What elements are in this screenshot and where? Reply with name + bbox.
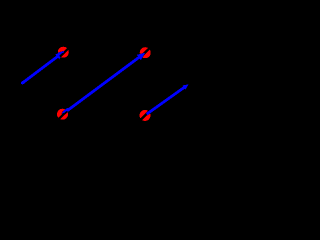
segment 1 head stub over slash — [58, 52, 64, 54]
open point P4 slash — [141, 112, 149, 120]
open point P1 slash — [60, 49, 68, 57]
open point P2 disk — [140, 47, 151, 58]
segment 1 head arrow — [55, 52, 64, 60]
open point P4 disk — [139, 110, 150, 121]
open point P3 slash — [59, 111, 67, 119]
segment 2 start stub over slash — [63, 109, 68, 113]
segment 1 tail arrow — [21, 81, 25, 85]
segment 3 head arrow — [182, 84, 188, 90]
segment 2 head arrow — [137, 53, 146, 61]
open point P2 slash — [141, 49, 149, 57]
open point P3 disk — [57, 109, 68, 120]
segment 2 shaft — [63, 56, 142, 114]
segment 3 shaft — [147, 86, 186, 114]
open point P1 disk — [58, 47, 69, 58]
segment 1 shaft — [22, 55, 61, 84]
